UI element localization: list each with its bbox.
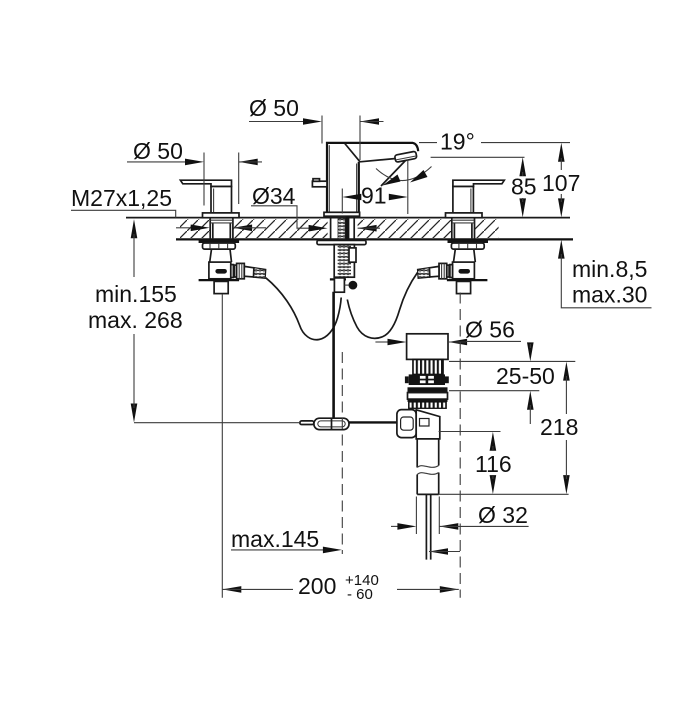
- right valve escutcheon flange: [446, 213, 483, 218]
- waste overflow band with holes: [405, 374, 449, 385]
- svg-text:25-50: 25-50: [496, 363, 555, 389]
- left valve ribbed nut: [203, 243, 236, 249]
- dimension 19 degrees: [376, 129, 570, 215]
- waste inner tube: [426, 494, 430, 559]
- left valve hose hex nut: [237, 263, 245, 278]
- left valve post: [211, 187, 232, 214]
- center faucet clip rect: [349, 248, 356, 262]
- left valve axis line: [221, 294, 223, 598]
- dimension Ø50 left valve: [127, 138, 262, 206]
- horizontal pop-up rod left stub: [300, 421, 314, 425]
- dimension 107: [542, 143, 580, 218]
- right valve post: [453, 187, 474, 214]
- waste plug ribbed head: [413, 359, 443, 374]
- right valve hose hex nut: [439, 263, 447, 278]
- dimension 85: [431, 157, 537, 217]
- center faucet temperature lever: [312, 179, 327, 187]
- left valve body: [209, 262, 231, 279]
- right valve body slot: [459, 269, 471, 274]
- svg-text:max.145: max.145: [231, 526, 319, 552]
- right valve outlet stub: [457, 281, 471, 293]
- waste tailpipe with break: [417, 439, 439, 495]
- svg-text:19°: 19°: [440, 129, 475, 155]
- deck top line: [126, 217, 570, 219]
- right valve body: [453, 262, 475, 279]
- dimension 116: [439, 432, 569, 495]
- dimension 200 +140 -60: [222, 572, 458, 603]
- dimension O32: [391, 497, 529, 535]
- right valve shank in deck hole: [452, 218, 475, 239]
- waste rod boss: [397, 410, 416, 438]
- right valve hose tube: [429, 266, 439, 277]
- svg-text:- 60: - 60: [347, 586, 373, 603]
- waste body: [416, 410, 440, 439]
- left valve shank in deck hole: [210, 218, 233, 239]
- left valve hose braid: [254, 268, 266, 279]
- svg-text:Ø 56: Ø 56: [465, 317, 515, 343]
- dimension drain offset stub: [429, 548, 460, 555]
- left valve bracket bar: [199, 279, 240, 281]
- deck hatching: [180, 219, 499, 238]
- center faucet axis line: [341, 352, 343, 554]
- svg-text:Ø34: Ø34: [252, 183, 296, 209]
- dimension 25-50: [449, 342, 575, 424]
- svg-text:116: 116: [475, 451, 512, 477]
- svg-text:85: 85: [511, 174, 537, 200]
- waste white band: [408, 393, 448, 400]
- svg-text:200: 200: [298, 573, 336, 599]
- center faucet base flange: [324, 212, 360, 216]
- center faucet locknut washer: [317, 240, 366, 244]
- waste rubber washer ring: [408, 387, 448, 392]
- svg-text:Ø 32: Ø 32: [478, 502, 528, 528]
- svg-text:min.8,5: min.8,5: [572, 256, 647, 282]
- svg-text:107: 107: [542, 170, 580, 196]
- dimension min 8,5 max 30 deck thickness: [558, 240, 652, 308]
- svg-text:Ø 50: Ø 50: [249, 95, 299, 121]
- dimension min 155 max 268: [88, 219, 301, 423]
- dimension Ø50 center spout: [249, 95, 384, 160]
- center faucet aerator: [395, 151, 417, 162]
- left valve locknut washer: [199, 240, 240, 243]
- svg-text:M27x1,25: M27x1,25: [71, 185, 172, 211]
- center faucet spout underside: [360, 158, 397, 161]
- left valve lever: [180, 180, 231, 186]
- dimension O56: [375, 317, 521, 346]
- left valve hose tube: [244, 266, 254, 277]
- left valve escutcheon flange: [203, 213, 240, 218]
- right valve ribbed nut: [451, 243, 484, 249]
- center faucet crease: [345, 144, 360, 162]
- svg-text:Ø 50: Ø 50: [133, 138, 183, 164]
- svg-text:max. 268: max. 268: [88, 307, 183, 333]
- dimension 218: [540, 362, 578, 495]
- left valve hose rings: [231, 265, 237, 278]
- rod linkage clevis: [314, 418, 349, 429]
- left flexible hose curve: [266, 278, 341, 340]
- right valve hose rings: [447, 265, 453, 278]
- dimension 91 spout projection: [342, 183, 408, 214]
- left valve neck: [210, 249, 232, 262]
- right valve hose braid: [418, 268, 430, 279]
- center faucet body: [327, 143, 418, 213]
- center faucet threaded shank below deck: [334, 245, 354, 278]
- lift rod guide: [330, 278, 346, 292]
- right valve locknut washer: [448, 240, 489, 243]
- right valve axis line: [459, 293, 461, 598]
- right valve lever: [453, 180, 504, 186]
- svg-text:218: 218: [540, 414, 578, 440]
- waste ribbed locknut: [409, 402, 447, 408]
- left valve outlet stub: [214, 281, 228, 293]
- dimension max 145: [231, 526, 342, 553]
- left valve body slot: [215, 269, 227, 274]
- svg-text:max.30: max.30: [572, 282, 647, 308]
- right valve bracket bar: [447, 279, 488, 281]
- svg-text:min.155: min.155: [95, 281, 177, 307]
- right valve neck: [454, 249, 476, 262]
- dimension M27x1,25: [71, 185, 176, 218]
- deck bottom line: [176, 238, 573, 240]
- right flexible hose curve: [347, 273, 417, 339]
- lift rod: [332, 292, 335, 426]
- center faucet shank through deck: [331, 216, 355, 240]
- svg-text:91: 91: [361, 183, 387, 209]
- waste thin black ring: [408, 399, 448, 402]
- dimension Ø34: [176, 183, 380, 232]
- waste top cylinder: [407, 334, 448, 360]
- lift rod knob: [349, 281, 358, 290]
- horizontal pop-up rod to waste: [349, 421, 398, 423]
